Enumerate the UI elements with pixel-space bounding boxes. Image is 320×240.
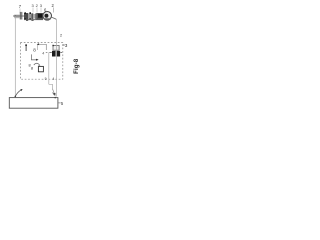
- assembly left bracket bar 2: [21, 12, 22, 20]
- solenoid valve block right: [57, 51, 61, 57]
- pump dome housing: [43, 12, 52, 21]
- assembly stripe 2: [35, 13, 36, 19]
- elbow arrowhead: [37, 43, 39, 45]
- inner tick: [46, 52, 48, 54]
- assembly block C core: [38, 14, 42, 18]
- assembly block A bolt 2: [29, 12, 31, 14]
- left supply pipe wire: [14, 16, 16, 96]
- valve drain pipe left: [48, 52, 50, 84]
- pump return curved arrow: [15, 90, 21, 96]
- assembly left pedestal: [14, 15, 19, 19]
- valve left tick: [49, 51, 51, 53]
- assembly block A bolt 4: [29, 18, 31, 20]
- leader wire for 7: [19, 9, 21, 13]
- pump return arrowhead: [20, 89, 22, 91]
- leader wire 2: [53, 8, 55, 13]
- drain elbow: [49, 84, 53, 88]
- pump dome base shade: [43, 18, 51, 20]
- svg-text:8: 8: [31, 66, 33, 71]
- right pipe wire upper: [56, 19, 58, 45]
- assembly block A bolt 3: [24, 18, 26, 20]
- svg-text:8: 8: [33, 48, 36, 53]
- pump dome hub: [44, 14, 48, 18]
- leader wire 32: [36, 8, 38, 13]
- filter inlet notch: [38, 66, 40, 67]
- filter square: [38, 66, 43, 71]
- inner leader mark: [25, 45, 27, 51]
- pipe elbow from dome to down pipe: [52, 17, 57, 19]
- svg-text:9: 9: [45, 77, 47, 81]
- assembly block B: [33, 14, 36, 19]
- curved leader to filter: [34, 63, 40, 65]
- assembly stripe: [32, 13, 34, 19]
- leader wire 30: [32, 8, 34, 13]
- assembly block A bolt 1: [24, 12, 26, 14]
- svg-text:4: 4: [42, 52, 44, 56]
- tank reservoir: [9, 98, 58, 109]
- assembly bottom edge: [24, 18, 43, 21]
- valve right tick: [60, 52, 62, 54]
- branch elbow with arrow: [31, 54, 36, 59]
- drain arrowhead: [54, 93, 56, 96]
- inner leader wire: [36, 44, 38, 50]
- label 5 tick: [58, 102, 61, 104]
- svg-text:4: 4: [53, 77, 55, 81]
- pump junction node: [15, 96, 17, 98]
- assembly block A2: [28, 14, 31, 19]
- assembly left bracket bar 1: [20, 12, 21, 20]
- assembly foot 1: [26, 20, 28, 21]
- assembly block C: [36, 13, 43, 20]
- branch arrowhead: [36, 59, 39, 61]
- drain arrow to tank: [52, 89, 54, 95]
- dashed enclosure box: [20, 42, 62, 79]
- assembly block A: [24, 13, 28, 20]
- valve pilot box: [53, 45, 59, 50]
- coupling between motor and dome: [43, 14, 45, 19]
- valve drain pipe right: [56, 45, 58, 97]
- svg-text:2: 2: [60, 33, 62, 37]
- valve pilot tick: [52, 45, 54, 46]
- elbow connector with arrow: [39, 44, 47, 50]
- tank inlet arrow tick: [53, 93, 55, 96]
- assembly foot 2: [31, 20, 33, 21]
- leader wire 34: [40, 8, 42, 13]
- svg-text:Fig-8: Fig-8: [74, 58, 80, 74]
- solenoid valve block left: [52, 51, 56, 57]
- inner leader head: [25, 44, 27, 46]
- tank inlet node: [54, 97, 56, 99]
- node at left pipe junction: [15, 15, 17, 17]
- label 3 tick: [63, 44, 65, 46]
- motor assembly base line: [13, 15, 25, 17]
